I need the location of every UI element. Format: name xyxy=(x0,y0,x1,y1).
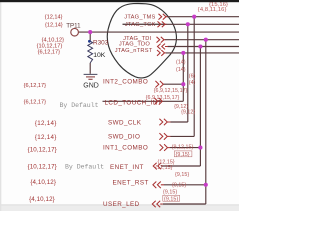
wire vertical nTRST to LCD_TOUCH_INT xyxy=(182,53,184,101)
wire vertical TDI to USER_LED xyxy=(205,40,207,204)
page background xyxy=(0,0,239,211)
wire JTAG_TCK net xyxy=(123,23,240,25)
wire TP11 to R303 xyxy=(89,32,91,41)
svg-text:{4,10,12}: {4,10,12} xyxy=(29,196,55,203)
wire JTAG_TDI net xyxy=(165,39,239,41)
svg-text:JTAG_TDO: JTAG_TDO xyxy=(119,41,151,47)
svg-text:(14): (14) xyxy=(176,67,186,73)
wire vertical TCK to SWD_CLK xyxy=(187,24,189,122)
svg-text:ENET_RST: ENET_RST xyxy=(113,180,149,187)
svg-text:{4,10,12}: {4,10,12} xyxy=(42,37,65,43)
svg-text:(6): (6) xyxy=(189,74,196,80)
port arrow JTAG_nTRST out xyxy=(157,50,166,56)
svg-text:TP11: TP11 xyxy=(66,22,81,29)
left column page refs xyxy=(24,15,65,203)
test point TP11 xyxy=(71,28,79,36)
wire JTAG_TDO net xyxy=(168,46,240,48)
port arrow JTAG_TDO in xyxy=(158,44,169,50)
wire INT1_COMBO net xyxy=(170,147,200,149)
port arrow INT2_COMBO out xyxy=(155,81,163,88)
svg-text:INT2_COMBO: INT2_COMBO xyxy=(103,78,148,85)
svg-text:{6,9,13,15,17}: {6,9,13,15,17} xyxy=(146,95,180,101)
junction TDI vertical xyxy=(204,38,208,42)
port arrow LCD_TOUCH_INT out xyxy=(154,98,162,105)
resistor R303 xyxy=(88,41,93,63)
svg-text:SWD_DIO: SWD_DIO xyxy=(108,134,140,141)
junction TCK vertical xyxy=(186,22,190,26)
ground symbol xyxy=(84,74,98,79)
wire R303 to GND xyxy=(89,63,91,74)
wire vertical TMS to SWD_DIO xyxy=(193,17,195,137)
svg-text:By Default: By Default xyxy=(65,164,104,171)
connector arrows xyxy=(152,14,170,208)
svg-text:{6,9,12,15,17}: {6,9,12,15,17} xyxy=(154,88,188,94)
net labels lower signals xyxy=(103,78,162,207)
wire vertical TDO to ENET_INT xyxy=(199,47,201,167)
wire LCD_TOUCH_INT net xyxy=(103,100,184,102)
svg-text:(4): (4) xyxy=(189,80,196,86)
svg-text:SWD_CLK: SWD_CLK xyxy=(108,119,142,126)
left gray strip xyxy=(0,0,1,211)
svg-text:{10,12,17}: {10,12,17} xyxy=(28,146,57,153)
port arrow JTAG_TDI out xyxy=(157,37,166,43)
junction TMS vertical xyxy=(192,15,196,19)
svg-text:{12,14}: {12,14} xyxy=(45,15,63,21)
junction nTRST vertical xyxy=(181,51,185,55)
junction TDO vertical xyxy=(198,44,202,48)
wire JTAG_TMS net xyxy=(167,16,239,18)
wire TP11 net xyxy=(78,31,239,33)
junction ENET_RST xyxy=(204,183,208,187)
svg-text:JTAG_TCK: JTAG_TCK xyxy=(125,22,156,28)
svg-text:By Default: By Default xyxy=(60,102,99,109)
wire USER_LED net xyxy=(163,203,206,205)
svg-text:{4,8,11,16}: {4,8,11,16} xyxy=(198,7,227,13)
svg-text:{12,14}: {12,14} xyxy=(45,22,63,28)
svg-text:{4,10,12}: {4,10,12} xyxy=(30,179,56,186)
svg-text:{6,12,17}: {6,12,17} xyxy=(24,99,47,105)
wire ENET_RST net xyxy=(164,184,206,186)
svg-text:USER_LED: USER_LED xyxy=(103,201,140,208)
svg-text:R303: R303 xyxy=(93,39,109,46)
svg-text:{12,14}: {12,14} xyxy=(35,134,57,141)
svg-text:JTAG_TMS: JTAG_TMS xyxy=(124,14,155,20)
wire SWD_DIO net xyxy=(171,135,195,137)
port arrow SWD_DIO out xyxy=(159,133,170,140)
net labels JTAG xyxy=(115,14,156,54)
port arrow INT1_COMBO out xyxy=(160,144,170,151)
svg-text:{9,15}: {9,15} xyxy=(172,183,186,189)
svg-text:{9,12,15}: {9,12,15} xyxy=(172,145,194,151)
top window bar xyxy=(0,0,239,2)
svg-text:ENET_INT: ENET_INT xyxy=(110,164,144,171)
port arrow JTAG_TCK out xyxy=(158,21,167,27)
junction INT1_COMBO xyxy=(198,146,202,150)
junction TP11/R303 xyxy=(88,30,92,34)
svg-text:{9,15}: {9,15} xyxy=(163,190,177,196)
highlight oval around JTAG group xyxy=(107,3,176,77)
junction INT2_COMBO xyxy=(181,82,185,86)
svg-text:INT1_COMBO: INT1_COMBO xyxy=(103,145,148,152)
svg-text:{12,15}: {12,15} xyxy=(155,165,172,171)
svg-text:(14): (14) xyxy=(176,59,186,65)
svg-text:GND: GND xyxy=(83,82,99,89)
svg-text:{9,15}: {9,15} xyxy=(175,172,189,178)
wire SWD_CLK net xyxy=(171,121,188,123)
wire ENET_INT net xyxy=(161,165,200,167)
pin dot R303 top xyxy=(88,40,91,43)
svg-text:JTAG_nTRST: JTAG_nTRST xyxy=(115,48,153,54)
port arrow ENET_RST in xyxy=(153,182,164,189)
port arrow USER_LED in xyxy=(152,201,163,208)
svg-text:{6,12,17}: {6,12,17} xyxy=(38,49,61,55)
bottom gray strip xyxy=(0,205,239,211)
svg-text:{12,14}: {12,14} xyxy=(35,120,57,127)
svg-text:{9,15}: {9,15} xyxy=(176,152,190,158)
svg-text:{9,12}: {9,12} xyxy=(181,110,195,116)
small pin refs right side xyxy=(146,59,196,202)
svg-text:{6,12,17}: {6,12,17} xyxy=(24,83,47,89)
port arrow SWD_CLK out xyxy=(159,119,170,126)
port arrow ENET_INT in xyxy=(153,163,161,170)
wire INT2_COMBO net xyxy=(164,83,184,85)
port arrow JTAG_TMS out xyxy=(159,14,168,20)
wire JTAG_nTRST net xyxy=(166,52,239,54)
svg-text:10K: 10K xyxy=(93,52,106,59)
svg-text:{10,12,17}: {10,12,17} xyxy=(28,164,57,171)
